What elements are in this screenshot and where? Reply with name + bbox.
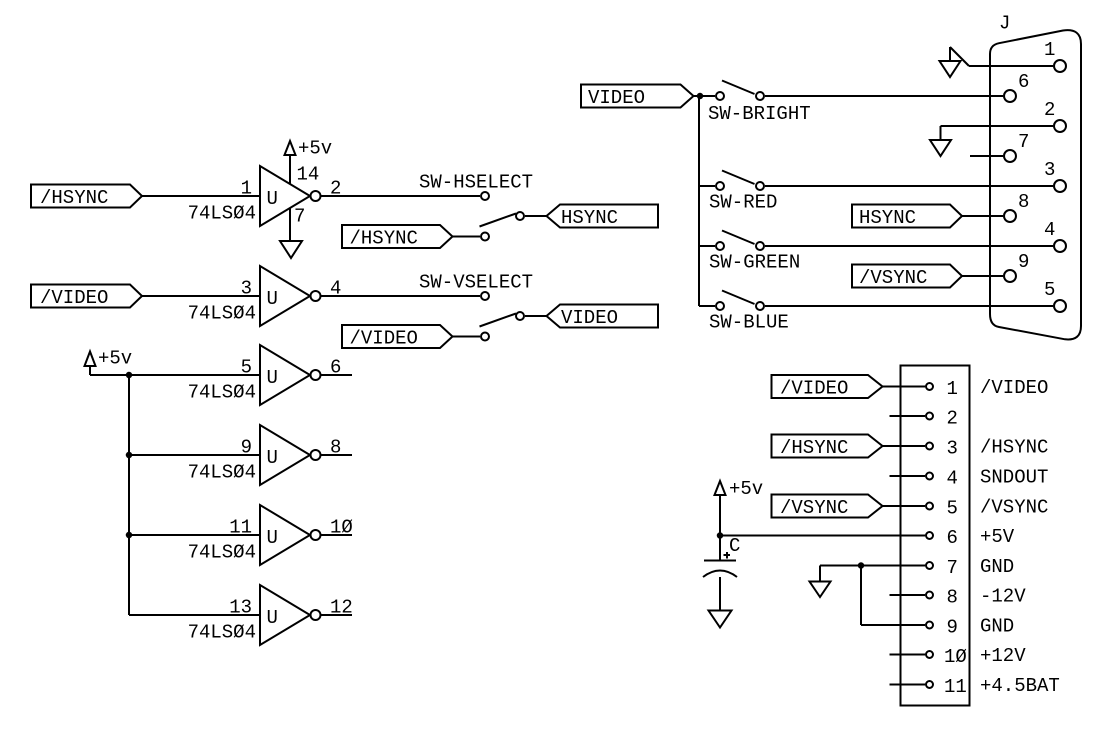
svg-text:U: U <box>267 607 278 629</box>
svg-text:6: 6 <box>947 527 958 549</box>
svg-text:/VIDEO: /VIDEO <box>780 378 848 400</box>
svg-text:5: 5 <box>947 498 958 520</box>
svg-text:+5v: +5v <box>729 478 763 500</box>
svg-text:SW-VSELECT: SW-VSELECT <box>419 272 533 294</box>
svg-text:1Ø: 1Ø <box>330 517 353 539</box>
svg-text:74LSØ4: 74LSØ4 <box>188 462 256 484</box>
svg-text:+5v: +5v <box>298 138 332 160</box>
svg-text:4: 4 <box>947 468 958 490</box>
svg-text:U: U <box>267 367 278 389</box>
svg-text:VIDEO: VIDEO <box>561 307 618 329</box>
svg-text:1: 1 <box>947 378 958 400</box>
svg-text:+5V: +5V <box>980 526 1015 548</box>
svg-text:9: 9 <box>1018 251 1029 273</box>
svg-text:HSYNC: HSYNC <box>859 207 916 229</box>
svg-text:7: 7 <box>1018 131 1029 153</box>
svg-text:1Ø: 1Ø <box>944 646 967 668</box>
svg-text:7: 7 <box>947 557 958 579</box>
svg-text:/HSYNC: /HSYNC <box>350 228 418 250</box>
svg-text:13: 13 <box>229 597 252 619</box>
svg-text:+5v: +5v <box>98 348 132 370</box>
svg-text:SNDOUT: SNDOUT <box>980 467 1048 489</box>
svg-text:/HSYNC: /HSYNC <box>980 437 1048 459</box>
svg-text:8: 8 <box>330 437 341 459</box>
svg-text:/VIDEO: /VIDEO <box>40 287 108 309</box>
svg-text:11: 11 <box>944 676 967 698</box>
svg-text:SW-GREEN: SW-GREEN <box>709 252 800 274</box>
svg-text:4: 4 <box>1044 219 1055 241</box>
svg-text:1: 1 <box>241 178 252 200</box>
svg-text:/VSYNC: /VSYNC <box>859 267 927 289</box>
svg-text:2: 2 <box>1044 99 1055 121</box>
svg-text:6: 6 <box>1018 71 1029 93</box>
svg-text:VIDEO: VIDEO <box>588 87 645 109</box>
svg-text:1: 1 <box>1044 39 1055 61</box>
svg-text:/VSYNC: /VSYNC <box>980 497 1048 519</box>
svg-text:7: 7 <box>294 206 305 228</box>
svg-text:HSYNC: HSYNC <box>561 207 618 229</box>
svg-text:3: 3 <box>947 438 958 460</box>
svg-text:12: 12 <box>330 597 353 619</box>
svg-text:U: U <box>267 447 278 469</box>
svg-text:4: 4 <box>330 278 341 300</box>
svg-text:11: 11 <box>229 517 252 539</box>
svg-text:/VIDEO: /VIDEO <box>350 328 418 350</box>
svg-text:SW-BRIGHT: SW-BRIGHT <box>708 103 811 125</box>
svg-text:U: U <box>267 188 278 210</box>
svg-text:+12V: +12V <box>980 645 1026 667</box>
svg-text:9: 9 <box>241 437 252 459</box>
svg-text:/VSYNC: /VSYNC <box>780 497 848 519</box>
svg-text:74LSØ4: 74LSØ4 <box>188 542 256 564</box>
svg-text:3: 3 <box>1044 159 1055 181</box>
svg-text:U: U <box>267 527 278 549</box>
svg-text:GND: GND <box>980 556 1014 578</box>
svg-text:9: 9 <box>947 617 958 639</box>
svg-text:6: 6 <box>330 357 341 379</box>
svg-text:74LSØ4: 74LSØ4 <box>188 622 256 644</box>
svg-text:/HSYNC: /HSYNC <box>40 187 108 209</box>
svg-text:8: 8 <box>947 587 958 609</box>
svg-text:C: C <box>729 535 740 557</box>
svg-text:SW-BLUE: SW-BLUE <box>709 312 789 334</box>
svg-text:SW-HSELECT: SW-HSELECT <box>419 172 533 194</box>
svg-text:-12V: -12V <box>980 586 1026 608</box>
svg-text:U: U <box>267 288 278 310</box>
svg-text:/VIDEO: /VIDEO <box>980 377 1048 399</box>
svg-text:5: 5 <box>1044 279 1055 301</box>
svg-text:2: 2 <box>330 178 341 200</box>
svg-text:GND: GND <box>980 616 1014 638</box>
svg-text:8: 8 <box>1018 191 1029 213</box>
svg-text:+4.5BAT: +4.5BAT <box>980 675 1060 697</box>
svg-text:/HSYNC: /HSYNC <box>780 437 848 459</box>
svg-text:5: 5 <box>241 357 252 379</box>
svg-text:J: J <box>999 13 1010 35</box>
svg-text:74LSØ4: 74LSØ4 <box>188 203 256 225</box>
svg-text:74LSØ4: 74LSØ4 <box>188 382 256 404</box>
svg-text:2: 2 <box>947 408 958 430</box>
svg-text:SW-RED: SW-RED <box>709 192 777 214</box>
svg-text:74LSØ4: 74LSØ4 <box>188 303 256 325</box>
svg-text:14: 14 <box>297 164 320 186</box>
svg-text:3: 3 <box>241 278 252 300</box>
